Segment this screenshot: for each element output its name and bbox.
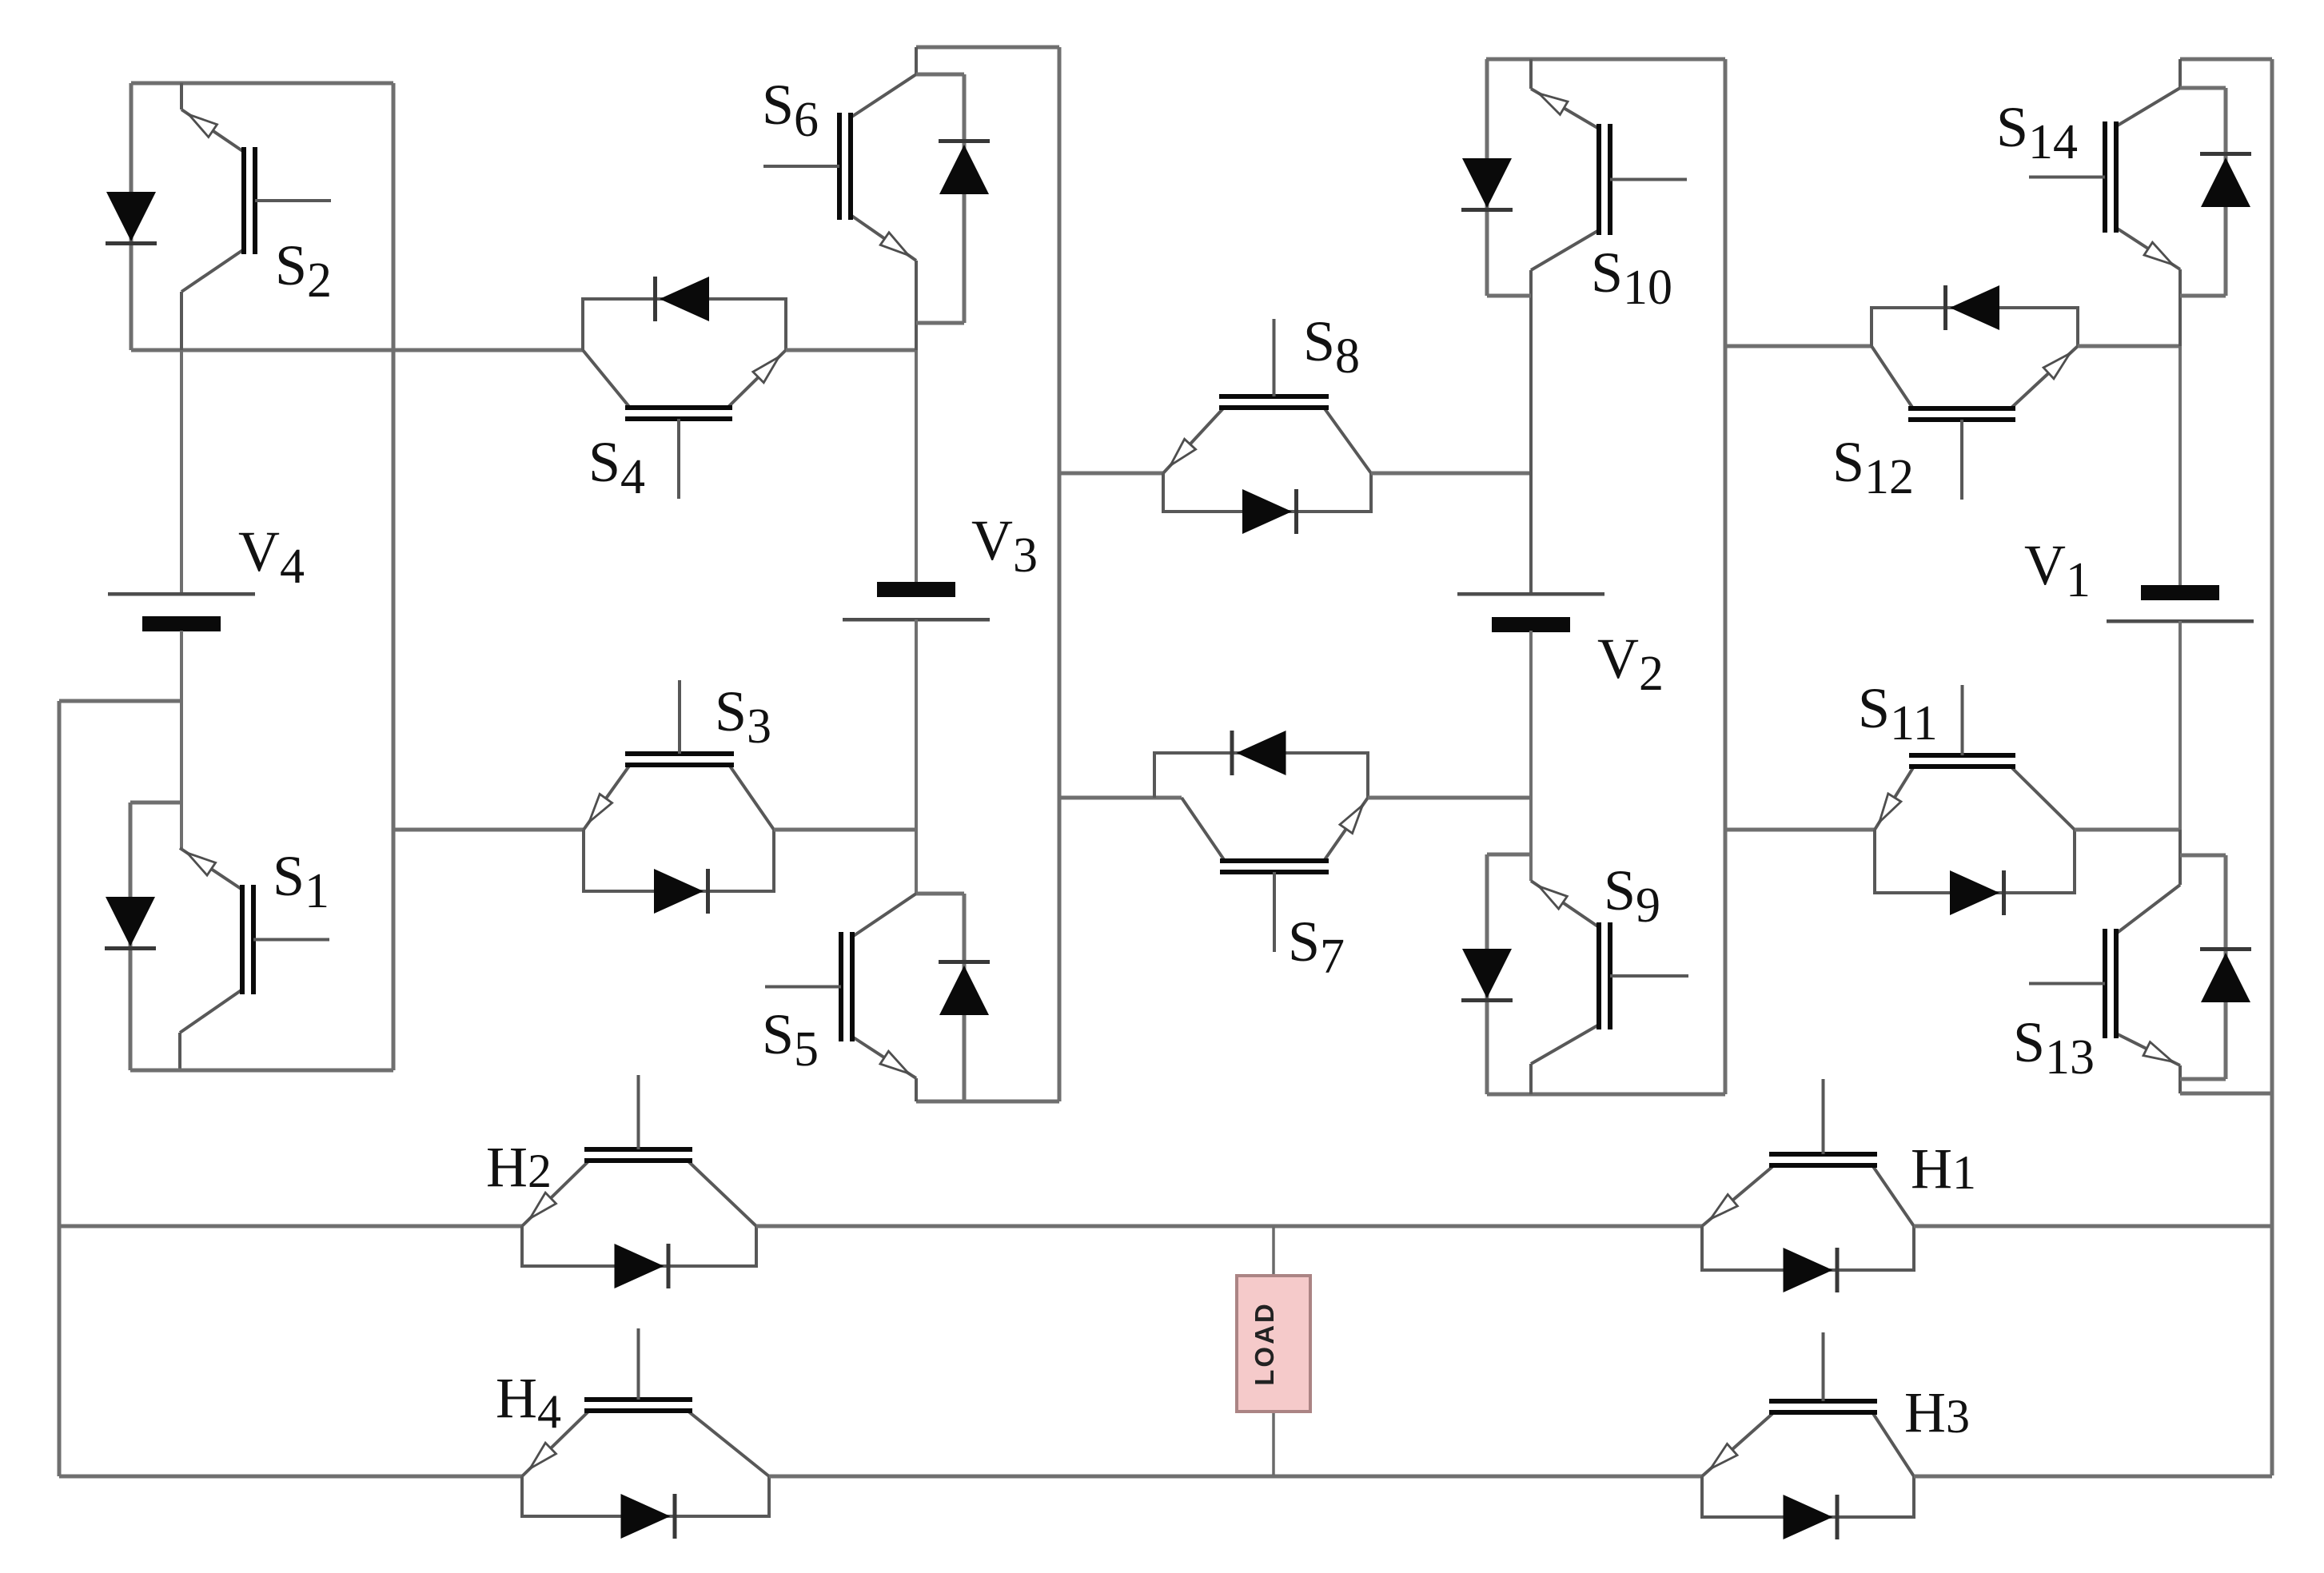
svg-text:H1: H1 — [1911, 1137, 1976, 1201]
svg-text:LOAD: LOAD — [1250, 1301, 1279, 1386]
svg-text:H3: H3 — [1904, 1380, 1970, 1444]
svg-text:H2: H2 — [486, 1135, 552, 1199]
